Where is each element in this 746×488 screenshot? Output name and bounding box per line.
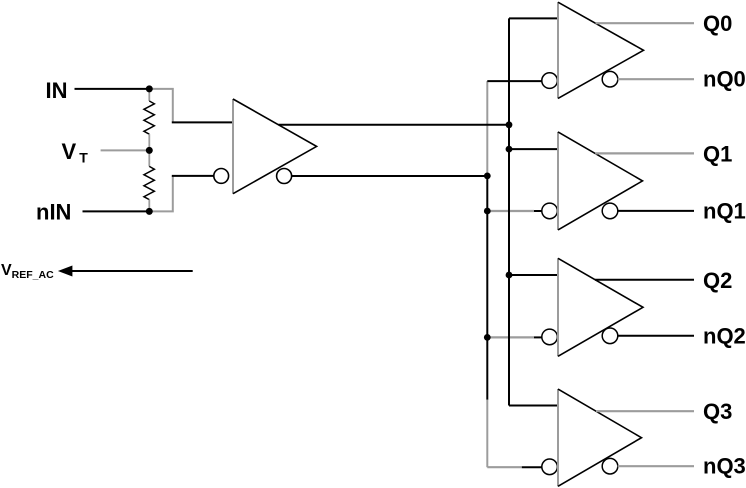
wire buffer U3 bottom input tap (gray) [487, 210, 534, 212]
wire nQ1 output [618, 210, 694, 212]
buffer U2 triangle [558, 2, 644, 98]
svg-text:Q1: Q1 [703, 141, 732, 166]
wire IN elbow to buffer noninverting input (gray) [149, 89, 173, 123]
buffer U3 triangle [558, 132, 643, 230]
node U4 bottom input junction [484, 334, 491, 341]
wire Q3 output [596, 410, 694, 412]
wire Q1 output [595, 152, 694, 154]
svg-text:Q0: Q0 [703, 11, 732, 36]
svg-text:VREF_AC: VREF_AC [1, 262, 54, 281]
wire Q2 output [595, 279, 694, 281]
wire Q0 output [596, 22, 695, 24]
input bubble U4 [542, 329, 558, 345]
wire nQ3 output [618, 465, 694, 467]
wire buffer U2 bottom input [487, 80, 542, 82]
node IN junction [146, 85, 153, 92]
input bubble U5 [542, 459, 558, 475]
input bubble U1 [214, 169, 229, 184]
svg-text:nQ1: nQ1 [703, 198, 746, 223]
svg-text:IN: IN [46, 78, 68, 103]
wire black bus vertical [508, 18, 510, 405]
wire buffer U4 bottom input tap (gray) [487, 336, 534, 338]
wire IN [75, 88, 150, 90]
wire nQ2 output [618, 335, 694, 337]
svg-text:Q3: Q3 [703, 399, 732, 424]
buffer U5 triangle [558, 389, 642, 486]
wire buffer U3 top input [509, 148, 558, 150]
wire buffer U5 bottom input elbow (gray) [487, 466, 522, 468]
wire buffer U4 top input [509, 274, 558, 276]
input bubble U3 [542, 203, 558, 219]
wire buffer U5 bottom input stub [522, 466, 542, 468]
output bubble U2 [602, 71, 618, 87]
wire buffer U2 top input [509, 17, 558, 19]
wire U1 top output to black bus [279, 124, 510, 126]
svg-text:nQ2: nQ2 [703, 323, 746, 348]
wire nIN [83, 210, 150, 212]
op-amp U1 (central differential buffer) [233, 99, 317, 194]
node VT junction [146, 147, 153, 154]
wire buffer U5 top input [509, 405, 558, 407]
wire buffer U1 top input [172, 121, 233, 123]
output bubble U4 [602, 328, 618, 344]
wire gray bus segment bottom [486, 400, 488, 468]
node nIN junction [146, 208, 153, 215]
output bubble U3 [602, 203, 618, 219]
wire gray bus segment top [486, 81, 488, 176]
output bubble U1 [277, 169, 292, 184]
wire gray bus segment middle (black) [486, 175, 488, 400]
svg-text:nQ0: nQ0 [703, 67, 746, 92]
wire buffer U3 bottom input stub [534, 210, 542, 212]
node U3 bottom input junction [484, 208, 491, 215]
wire buffer U1 bottom input [172, 175, 214, 177]
svg-text:VT: VT [62, 139, 89, 165]
svg-text:Q2: Q2 [703, 268, 732, 293]
node U3 top input junction [506, 146, 513, 153]
output bubble U5 [602, 458, 618, 474]
wire buffer U4 bottom input stub [534, 336, 542, 338]
wire nQ0 output [618, 78, 694, 80]
node U1 bottom output junction [484, 173, 491, 180]
wire U1 bottom output to gray bus [292, 175, 488, 177]
buffer U4 triangle [558, 258, 643, 356]
node U1 top output junction [506, 121, 513, 128]
wire VT (gray) [101, 149, 150, 151]
node U4 top input junction [506, 272, 513, 279]
input bubble U2 [542, 73, 558, 89]
arrow VREF_AC [58, 266, 193, 277]
svg-text:nQ3: nQ3 [703, 454, 746, 479]
resistor R2 [144, 150, 155, 211]
wire nIN elbow to buffer inverting input (gray) [149, 176, 173, 212]
svg-text:nIN: nIN [36, 199, 71, 224]
resistor R1 [144, 89, 155, 150]
